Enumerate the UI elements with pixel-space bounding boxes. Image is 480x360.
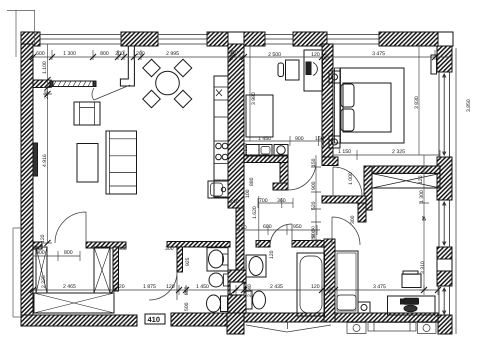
- svg-text:800: 800: [64, 250, 73, 256]
- svg-text:300: 300: [165, 246, 174, 252]
- svg-text:800: 800: [100, 51, 109, 57]
- svg-text:2 465: 2 465: [63, 284, 76, 290]
- svg-text:300: 300: [118, 246, 127, 252]
- svg-text:3 830: 3 830: [414, 96, 420, 109]
- svg-text:120: 120: [166, 284, 175, 290]
- svg-text:500: 500: [184, 302, 190, 311]
- svg-text:360: 360: [277, 198, 286, 204]
- svg-text:120: 120: [418, 175, 424, 184]
- svg-text:240: 240: [230, 199, 239, 205]
- svg-text:2 435: 2 435: [270, 284, 283, 290]
- svg-text:150: 150: [311, 158, 317, 167]
- svg-text:950: 950: [293, 224, 302, 230]
- svg-text:120: 120: [40, 234, 46, 243]
- svg-text:2.140: 2.140: [247, 284, 253, 297]
- svg-text:2.225: 2.225: [41, 275, 47, 288]
- svg-text:2 325: 2 325: [392, 149, 405, 155]
- svg-text:1 000: 1 000: [348, 172, 354, 185]
- svg-text:1 450: 1 450: [196, 284, 209, 290]
- svg-text:510: 510: [229, 50, 238, 56]
- svg-text:1 875: 1 875: [143, 284, 156, 290]
- svg-text:120: 120: [311, 52, 320, 58]
- svg-text:1 150: 1 150: [338, 149, 351, 155]
- svg-text:800: 800: [36, 250, 45, 256]
- svg-text:925: 925: [185, 257, 191, 266]
- svg-text:120: 120: [311, 284, 320, 290]
- svg-text:1.620: 1.620: [252, 206, 258, 219]
- svg-text:3.850: 3.850: [466, 99, 472, 112]
- svg-text:120: 120: [116, 284, 125, 290]
- svg-text:1.120: 1.120: [243, 143, 249, 156]
- svg-text:410: 410: [147, 315, 160, 324]
- svg-text:3 980: 3 980: [251, 92, 257, 105]
- svg-text:200: 200: [136, 51, 145, 57]
- svg-text:600: 600: [36, 51, 45, 57]
- svg-text:100: 100: [245, 189, 251, 198]
- svg-text:3 475: 3 475: [373, 284, 386, 290]
- svg-text:800: 800: [184, 286, 190, 295]
- svg-text:1 450: 1 450: [258, 136, 271, 142]
- svg-text:3 310: 3 310: [420, 261, 426, 274]
- svg-text:200: 200: [115, 51, 124, 57]
- svg-text:3 475: 3 475: [372, 51, 385, 57]
- svg-text:900: 900: [311, 181, 317, 190]
- svg-text:1 300: 1 300: [419, 190, 425, 203]
- svg-text:750: 750: [238, 225, 247, 231]
- svg-text:2 995: 2 995: [166, 51, 179, 57]
- svg-text:700: 700: [259, 198, 268, 204]
- svg-text:2 500: 2 500: [268, 52, 281, 58]
- svg-text:600: 600: [263, 224, 272, 230]
- svg-text:300: 300: [350, 215, 356, 224]
- svg-text:1 300: 1 300: [63, 51, 76, 57]
- svg-text:900: 900: [295, 136, 304, 142]
- svg-text:150: 150: [315, 136, 324, 142]
- svg-text:50: 50: [310, 226, 315, 231]
- svg-text:880: 880: [249, 177, 255, 186]
- svg-text:50: 50: [310, 234, 315, 239]
- svg-text:200: 200: [44, 90, 50, 99]
- svg-text:1.100: 1.100: [42, 61, 48, 74]
- svg-text:120: 120: [269, 250, 275, 259]
- svg-text:4.916: 4.916: [42, 154, 48, 167]
- svg-text:520: 520: [311, 201, 317, 210]
